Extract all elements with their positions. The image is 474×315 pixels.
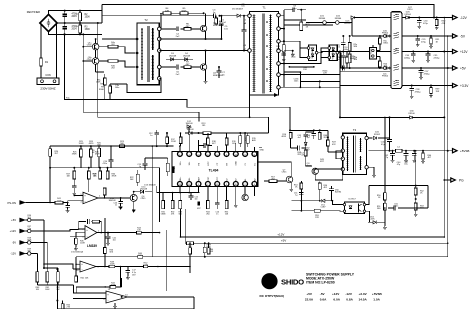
bead FB2 [28, 229, 31, 232]
left column opto drive [300, 181, 302, 211]
IC TL494 [172, 152, 258, 187]
svg-text:6: 6 [226, 154, 227, 156]
connector CON 230V-50HZ [37, 78, 59, 85]
svg-text:1IN-: 1IN- [189, 161, 191, 165]
resistor R29 [99, 168, 101, 171]
wire title block left edge [165, 257, 167, 291]
svg-text:1: 1 [98, 231, 99, 233]
wire return W2 [83, 34, 199, 121]
wire U1D output [128, 296, 195, 298]
svg-text:IC3 817: IC3 817 [348, 198, 356, 200]
resistor R30 47R [436, 18, 438, 20]
ground U1D [114, 303, 116, 305]
wire U1B minus input [70, 236, 85, 238]
ground Q2 emitter [204, 80, 208, 83]
capacitor C19 PS-ON [67, 203, 69, 206]
resistor R43 fb [92, 220, 99, 223]
wire U1C minus in [73, 268, 80, 270]
svg-text:9: 9 [226, 184, 227, 186]
svg-text:-12V: -12V [460, 16, 468, 20]
bead FB3 [28, 241, 31, 244]
svg-text:470µ: 470µ [423, 23, 428, 25]
diode D14 1N4148 [140, 190, 143, 193]
svg-text:C18V: C18V [304, 150, 310, 152]
vertical x104 protection [104, 218, 106, 267]
resistor R44 out [137, 231, 142, 234]
svg-text:6: 6 [254, 184, 255, 186]
svg-text:2IN-: 2IN- [189, 177, 191, 181]
svg-text:100n: 100n [115, 87, 119, 89]
capacitor C35 2200u [427, 52, 429, 55]
capacitor C38 4700u [411, 86, 413, 89]
node junctions cap bank [64, 10, 66, 12]
rectifier D24 STPR1620CT [329, 45, 337, 61]
wire return W1 [64, 34, 290, 130]
svg-text:100R: 100R [80, 243, 85, 245]
inductor L4 [396, 149, 403, 152]
capacitor C50 PG [388, 207, 394, 209]
resistor R28 [88, 168, 90, 171]
capacitor C2a 2n2 [342, 36, 344, 43]
wire gnd bus A [443, 18, 445, 238]
wire PS-ON [25, 202, 55, 204]
wire PG output [402, 207, 428, 209]
capacitor C13 [204, 143, 206, 148]
svg-text:FR304: FR304 [319, 18, 326, 20]
resistor R14 hang [239, 133, 241, 136]
transistor Q3 standby [312, 168, 318, 174]
wire Q6 collector [133, 192, 135, 195]
resistor R8a snubber [103, 78, 106, 85]
ground PG 2 [414, 213, 418, 216]
svg-text:SHIDO: SHIDO [281, 278, 304, 287]
resistor R25 [80, 146, 82, 149]
logo SHIDO circle [261, 273, 277, 289]
svg-text:16: 16 [179, 184, 181, 186]
capacitor C29 470u [417, 36, 419, 39]
resistor R11 damper [283, 41, 285, 45]
resistor R47b below [75, 264, 77, 276]
svg-text:ITEM NO:LP-6200: ITEM NO:LP-6200 [306, 280, 335, 284]
resistor R2a 5R6 [349, 36, 351, 43]
capacitor C14 470n [110, 146, 112, 160]
svg-text:-5V: -5V [460, 35, 466, 39]
svg-text:CON: CON [45, 74, 51, 77]
wire Q7 emitter [290, 183, 292, 189]
transformer T3 standby [343, 133, 367, 174]
ground damper [282, 58, 286, 61]
wire totem mid [95, 50, 97, 58]
svg-text:-12V: -12V [10, 252, 16, 256]
svg-text:150R: 150R [110, 264, 115, 266]
comparator U1C [80, 261, 96, 272]
T1 winding taps [266, 21, 268, 23]
T3 left pins [341, 136, 344, 139]
T2 right pins [158, 27, 162, 31]
wire +12V bus [181, 236, 445, 238]
ground T3 secondary [372, 174, 376, 177]
svg-text:1000µ: 1000µ [343, 49, 349, 51]
svg-text:2: 2 [99, 196, 100, 198]
inductor L1 [391, 12, 402, 89]
svg-text:15: 15 [188, 184, 190, 186]
capacitor C18 [73, 183, 75, 186]
svg-text:100R: 100R [111, 285, 116, 287]
diode D11 1N4148 [189, 131, 192, 134]
capacitor C9 10u [293, 8, 295, 13]
diode D26 FR104 [406, 16, 409, 19]
wire -5V rail [352, 35, 391, 37]
transformer T1 main [250, 12, 279, 95]
svg-text:1.0A: 1.0A [373, 298, 380, 302]
svg-text:2200µ: 2200µ [404, 57, 411, 59]
wire AC line left [40, 23, 42, 58]
svg-text:1N4148: 1N4148 [140, 189, 148, 191]
svg-text:+3.3V: +3.3V [460, 84, 469, 88]
svg-text:+12V: +12V [332, 292, 340, 296]
capacitor C20b base [120, 198, 122, 202]
svg-text:1: 1 [179, 154, 180, 156]
svg-text:D5 1N4007: D5 1N4007 [232, 9, 244, 11]
wire +5V bus [185, 242, 186, 244]
resistor R2c 5K6 [379, 35, 381, 37]
diode D41 FR104 [368, 137, 372, 139]
svg-text:230V-50HZ: 230V-50HZ [40, 87, 55, 91]
svg-text:DTC: DTC [208, 161, 210, 166]
resistor R23 56K [120, 145, 125, 148]
wire Q1b emitter [95, 64, 97, 72]
wire sec mesh y66.9 [289, 66, 313, 68]
resistor R7 base Q2 [184, 66, 191, 69]
output arrow +12V [446, 51, 453, 53]
resistor R17 [166, 133, 168, 137]
svg-text:T2: T2 [144, 18, 148, 22]
wire U1A output [98, 197, 105, 199]
svg-text:4R7: 4R7 [197, 208, 200, 210]
svg-text:DC OTPVT(MAX): DC OTPVT(MAX) [260, 294, 285, 298]
svg-text:4700µ: 4700µ [415, 91, 422, 93]
svg-text:1n: 1n [150, 135, 152, 137]
svg-text:8: 8 [245, 154, 246, 156]
wire Q1 collector [205, 13, 207, 26]
svg-text:0.8A: 0.8A [346, 298, 353, 302]
wire divider bus [44, 267, 58, 269]
wire Q1a base [83, 46, 92, 48]
wire Q6 emitter [133, 201, 135, 208]
svg-text:100K: 100K [45, 289, 50, 291]
resistor R47 startup [327, 137, 329, 140]
resistor R6 base Q1 [184, 28, 191, 31]
capacitor C51 1u [299, 193, 304, 195]
svg-text:GND: GND [236, 161, 238, 166]
transistor Q7 C945 [286, 176, 293, 183]
resistor R31 under IC [162, 193, 164, 201]
svg-text:+12V: +12V [460, 50, 468, 54]
resistor R3 150K [79, 23, 81, 25]
svg-text:FR302: FR302 [344, 23, 351, 25]
wire pin to bus verticals [180, 209, 182, 237]
resistor R48 out [109, 265, 115, 268]
wire T3 pin2 loop [336, 151, 343, 159]
wire sec mesh jog [284, 72, 300, 87]
svg-text:PS-ON: PS-ON [7, 201, 16, 205]
resistor R54c top [300, 183, 303, 189]
svg-text:10: 10 [235, 184, 237, 186]
ground secondary mid [292, 51, 294, 53]
resistor R42 pullup [104, 188, 106, 198]
svg-text:VCC: VCC [217, 176, 219, 181]
capacitor C7 collector Q2 [218, 67, 220, 71]
wire rail146 to x152 [99, 145, 152, 147]
capacitor C5 snubber Q1 [220, 24, 222, 39]
capacitor C41 47u [389, 138, 391, 140]
capacitor C2b 2n2 [342, 52, 344, 56]
pin D22 FR304 [336, 21, 340, 25]
svg-text:RECTIFIER: RECTIFIER [27, 11, 40, 14]
wire mid rail y39 [102, 38, 137, 40]
wire bridge + to top rail [49, 11, 103, 15]
resistor R32 under IC [172, 193, 174, 201]
svg-text:5: 5 [217, 154, 218, 156]
resistor R50 PG [384, 193, 387, 200]
resistor R39 15R [430, 86, 432, 88]
capacitor C15b 10n [190, 193, 192, 196]
capacitor C43 [405, 151, 407, 154]
svg-text:+5V: +5V [306, 292, 313, 296]
svg-text:3: 3 [198, 184, 199, 186]
svg-text:+5V: +5V [460, 67, 467, 71]
svg-text:2: 2 [189, 154, 190, 156]
wires U1B feedback loop [79, 222, 86, 230]
wire PG verticals [384, 117, 386, 192]
wire B+ standby feed [327, 130, 329, 137]
capacitor C52 [331, 186, 333, 189]
wire T2 pin rail y67 [161, 66, 176, 68]
svg-text:SBL2040CT: SBL2040CT [312, 47, 314, 59]
wire U1C out run [121, 266, 191, 268]
transistor Q1 MJE13007 [200, 25, 206, 31]
svg-text:5K6B: 5K6B [161, 214, 166, 216]
capacitor C4 base Q1 [176, 27, 178, 32]
capacitor C45 [305, 132, 307, 134]
svg-text:200V: 200V [72, 16, 78, 18]
capacitor C15c tant [197, 202, 200, 206]
wire Q1 emitter to mid rail [205, 31, 207, 39]
black bar left TL494 [172, 166, 174, 173]
svg-text:D15 BZX16A: D15 BZX16A [71, 251, 83, 254]
resistor R9 below rail [215, 16, 217, 18]
wire topmost B+ run [102, 5, 434, 18]
svg-text:LM339: LM339 [87, 244, 97, 248]
wire B+ to T1 [220, 15, 248, 17]
svg-text:FR104: FR104 [219, 22, 226, 24]
wire PG to arrow [443, 179, 445, 181]
svg-text:C18V: C18V [320, 207, 326, 209]
svg-text:56R: 56R [138, 255, 142, 257]
svg-text:+3.3V: +3.3V [359, 292, 368, 296]
svg-text:C5V6: C5V6 [369, 219, 375, 221]
svg-text:0.6A: 0.6A [320, 298, 327, 302]
resistor R34 under IC [207, 201, 210, 209]
capacitor C44 [413, 151, 415, 154]
rectifier D23 SBL2040CT [309, 45, 317, 61]
wires rectifier connections [284, 41, 307, 48]
wire +12V rail [340, 51, 391, 53]
capacitor C16b under IC [216, 201, 218, 204]
svg-text:1N4148: 1N4148 [169, 56, 177, 58]
svg-text:15R: 15R [436, 91, 440, 93]
wire AC neutral [56, 23, 58, 78]
wire Q2 emitter [205, 70, 207, 81]
capacitor C3 on B+ rail [214, 13, 216, 18]
resistor R52b [144, 265, 148, 268]
svg-text:2: 2 [245, 184, 246, 186]
svg-text:1N4148: 1N4148 [185, 123, 193, 125]
wire +3.3V rail [390, 85, 392, 87]
svg-text:100K: 100K [27, 239, 32, 241]
output arrow +3.3V [446, 85, 453, 87]
svg-text:FR304: FR304 [382, 33, 389, 35]
resistor R2d 1K5 [377, 56, 380, 58]
bead FB4 [28, 252, 31, 255]
wire +5V rail [352, 67, 391, 69]
capacitor C12 [156, 130, 158, 133]
wire Q7 collector [258, 161, 292, 163]
transistor Q6 C945 [130, 194, 137, 201]
wire Q7 base [264, 180, 269, 182]
resistor R40 bus drop [204, 243, 206, 247]
diode D25 FR302 on -12V rail [351, 16, 354, 19]
TL494 top pins [178, 152, 183, 157]
transistor Q6b near pins [242, 194, 248, 200]
resistor R52 PG [415, 186, 417, 188]
resistor R4b 2K2 [99, 60, 108, 62]
capacitor C6 base Q2 [176, 65, 178, 70]
capacitor C20 fb [88, 219, 90, 224]
resistor R30c [107, 168, 109, 171]
wire T3 right bottom pin [368, 167, 374, 174]
svg-text:1N4148: 1N4148 [108, 200, 116, 202]
svg-text:+5VSB: +5VSB [460, 149, 469, 153]
T1 left pins [248, 14, 252, 18]
resistor R55 2K87 [301, 210, 314, 212]
svg-text:470µ: 470µ [421, 41, 426, 43]
svg-text:22.0A: 22.0A [305, 298, 314, 302]
svg-text:4700µ: 4700µ [424, 73, 431, 75]
resistor R56b on x104 [104, 248, 107, 254]
transistor Q1b C945 [92, 58, 99, 65]
transistor Q2 MJE13007 [200, 64, 206, 70]
svg-text:10: 10 [76, 270, 78, 272]
T1 bottom arrow [274, 93, 279, 97]
svg-text:BZX84: BZX84 [335, 192, 342, 194]
regulator IC2 TL431 [370, 48, 377, 59]
svg-text:STPR1620CT: STPR1620CT [333, 46, 335, 60]
svg-text:390R: 390R [72, 154, 77, 156]
resistor R62 [57, 268, 59, 272]
svg-text:PG: PG [459, 178, 464, 182]
wire B+ rail upper [101, 5, 103, 23]
wire bridge - rail [49, 32, 103, 35]
svg-text:7: 7 [82, 229, 83, 231]
resistor R2 150K [79, 11, 81, 13]
svg-text:FR104: FR104 [405, 14, 412, 16]
svg-text:200V: 200V [72, 29, 78, 31]
wires U1A inputs [74, 195, 83, 197]
wires opto to PG [366, 186, 369, 205]
svg-text:12: 12 [216, 184, 218, 186]
svg-text:2200µ: 2200µ [434, 57, 441, 59]
resistor R16c below row [289, 133, 292, 139]
wire rail y257 left [76, 256, 166, 258]
wire 5VSB rail [368, 150, 455, 152]
comparator U1A [83, 192, 98, 204]
resistor R18 [207, 138, 210, 145]
wire T1 bottom left return [249, 95, 251, 117]
resistor R41 PS-ON [55, 201, 63, 204]
capacitor C42 [392, 151, 394, 154]
resistor R15 hang [247, 133, 249, 136]
svg-text:100n: 100n [394, 206, 398, 208]
svg-text:7: 7 [207, 184, 208, 186]
output arrow +5VSB [446, 150, 453, 152]
wire return bus left vertical [165, 230, 167, 257]
svg-text:T3: T3 [353, 128, 357, 132]
svg-text:FR106: FR106 [408, 113, 415, 115]
wire opto drive to left [291, 200, 301, 202]
transformer T2 driver [137, 23, 159, 85]
svg-text:A2K: A2K [252, 139, 256, 142]
svg-text:470R: 470R [57, 200, 62, 202]
wire R1 to connector [40, 66, 42, 78]
pin D21 FR304 [323, 21, 327, 25]
wire gnd bus B [447, 36, 449, 257]
wire x50 vref down [49, 168, 51, 203]
wire rail left of IC y146.1 [111, 145, 173, 147]
svg-text:100n: 100n [294, 81, 298, 83]
comparator U1B [85, 226, 97, 240]
wire Q3 connections [315, 168, 343, 170]
svg-text:10n: 10n [195, 199, 198, 201]
svg-text:22R: 22R [165, 11, 169, 13]
svg-text:+5V: +5V [11, 218, 16, 222]
svg-text:220R: 220R [171, 141, 176, 143]
vertical x120 to op4 [120, 267, 122, 288]
wire U1C plus in [76, 257, 80, 264]
svg-text:150K: 150K [85, 29, 91, 31]
svg-text:+12V: +12V [10, 229, 17, 233]
wire left input net [56, 269, 58, 300]
svg-text:FR304: FR304 [335, 18, 342, 20]
output arrow -12V [446, 17, 453, 19]
T2 left pin diamonds [135, 37, 139, 41]
svg-text:GND: GND [260, 150, 265, 152]
capacitor C22 4.7u [127, 267, 129, 271]
wire Q2 collector [205, 51, 207, 65]
wire U1D feedback [76, 287, 105, 293]
resistor R51 PG [384, 200, 386, 203]
ground PG 1 [383, 226, 387, 229]
svg-text:14: 14 [235, 154, 237, 156]
wire rail y167.7 [50, 167, 160, 169]
comparator U1D [106, 291, 128, 303]
wire row y130 [290, 129, 328, 131]
svg-text:1n: 1n [115, 205, 117, 207]
resistor R54b fb [110, 286, 116, 289]
wire T2 bottom return [127, 78, 161, 92]
svg-text:390R: 390R [112, 176, 117, 178]
diode D40 FR106 [410, 116, 413, 119]
